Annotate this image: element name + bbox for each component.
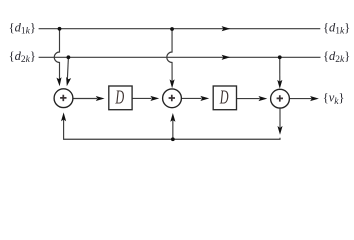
arrowhead into adder U3 left xyxy=(259,96,268,101)
arrowhead into adder U1 top from d1k xyxy=(56,77,62,86)
wire vertical from d2k node to adder U1 xyxy=(67,57,68,81)
adder U1 plus sign xyxy=(60,95,66,101)
node dot on feedback line below adder U2 xyxy=(171,137,175,141)
node dot on d2k at x=68.4 xyxy=(67,55,71,59)
wire feedback branch up to adder U2 xyxy=(172,118,174,139)
wire adder U2 output to delay D2 xyxy=(182,97,202,99)
arrowhead into adder U3 top xyxy=(277,80,282,89)
arrowhead on d2k line xyxy=(222,55,231,60)
node dot on d1k at x=172 xyxy=(170,27,174,31)
wire vertical from d1k node to adder U1 with hop over d2k xyxy=(54,29,59,82)
arrowhead into adder U1 top from d2k xyxy=(64,77,71,87)
svg-text:{d1k}: {d1k} xyxy=(323,20,350,36)
wire adder U3 output to vk xyxy=(290,98,312,100)
wire delay D1 output to adder U2 xyxy=(132,97,151,99)
wire feedback: down from adder U3 xyxy=(279,108,281,127)
svg-text:D: D xyxy=(115,87,125,109)
svg-text:{d2k}: {d2k} xyxy=(323,49,350,65)
svg-text:D: D xyxy=(219,87,229,109)
adder U3 plus sign xyxy=(277,95,283,101)
arrowhead feedback down from adder U3 xyxy=(277,126,282,135)
wire vertical from d2k right node to adder U3 xyxy=(279,57,281,82)
arrowhead to vk output xyxy=(310,96,319,101)
wire d1k top horizontal xyxy=(39,28,321,30)
wire feedback bottom run and rise to adder U1 xyxy=(64,118,280,140)
adder U2 circle xyxy=(163,89,182,108)
wire d2k second horizontal xyxy=(39,56,321,58)
wire vertical from d1k mid node to adder U2 with hop over d2k xyxy=(167,29,172,82)
svg-text:{d1k}: {d1k} xyxy=(9,20,36,36)
arrowhead into adder U2 left xyxy=(150,96,159,101)
node dot on d2k at x=279.75 xyxy=(278,55,282,59)
node dot on d1k at x=59.5 xyxy=(58,27,62,31)
arrowhead into adder U1 bottom (feedback) xyxy=(61,112,66,121)
delay block D2 xyxy=(213,86,236,110)
svg-text:{d2k}: {d2k} xyxy=(9,49,36,65)
wire delay D2 output to adder U3 xyxy=(237,98,260,100)
adder U1 circle xyxy=(54,89,73,108)
arrowhead into delay D1 xyxy=(96,96,105,101)
arrowhead into adder U2 top xyxy=(170,79,175,88)
adder U2 plus sign xyxy=(169,95,175,101)
arrowhead into delay D2 xyxy=(200,96,209,101)
wire adder U1 output to delay D1 xyxy=(73,98,97,100)
svg-text:{vk}: {vk} xyxy=(323,91,345,107)
adder U3 circle xyxy=(271,89,290,108)
arrowhead into adder U2 bottom (feedback) xyxy=(170,113,175,122)
delay block D1 xyxy=(109,86,132,110)
arrowhead on d1k line xyxy=(222,26,231,31)
